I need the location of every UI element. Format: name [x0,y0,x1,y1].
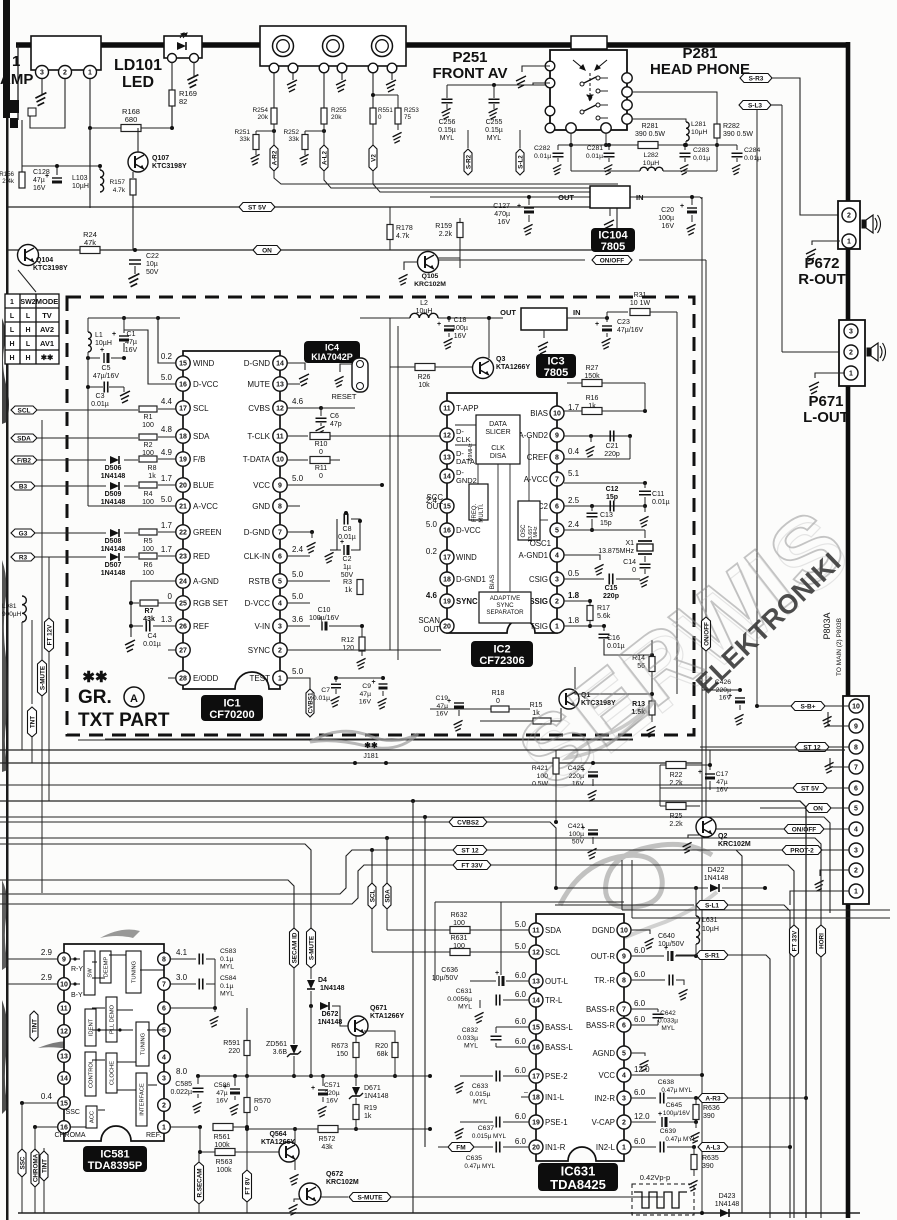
P251 pin 5 [368,63,378,73]
svg-text:C636: C636 [441,967,458,974]
svg-text:TUNING: TUNING [141,1032,147,1055]
svg-text:0: 0 [496,698,500,705]
svg-text:S-R2: S-R2 [465,154,472,169]
svg-text:Q672: Q672 [326,1171,343,1178]
diode D506 [110,456,119,464]
IC1 pin 26 REF [176,619,190,633]
svg-text:R635: R635 [702,1155,719,1162]
svg-text:KRC102M: KRC102M [326,1179,359,1186]
bottom border line [18,1212,860,1214]
transistor Q105 [418,252,439,273]
capacitor C637 [496,1117,500,1128]
svg-text:7: 7 [854,765,858,772]
flag A-L3 [698,1143,728,1152]
svg-text:15p: 15p [606,494,618,501]
svg-text:TV: TV [42,311,52,320]
bottom filter rail [571,170,640,172]
svg-text:C571: C571 [324,1082,340,1089]
IC581 block TUNING [136,1022,149,1066]
svg-text:0.01µ: 0.01µ [693,155,710,162]
P803A pin 7 [849,760,863,774]
svg-text:5.0: 5.0 [292,474,304,483]
IC1 pin 25 RGB SET [176,596,190,610]
svg-text:100: 100 [142,570,154,577]
svg-text:1N4148: 1N4148 [704,875,729,882]
flag HORI vertical [817,925,826,957]
bus wire y880 SECAM [0,880,294,928]
svg-text:IC3: IC3 [547,356,564,368]
svg-text:6.0: 6.0 [634,946,646,955]
svg-text:11: 11 [60,1006,68,1013]
svg-text:C585: C585 [175,1081,192,1088]
svg-text:WIND: WIND [193,359,215,368]
svg-text:12: 12 [276,406,284,413]
ground P251 pin6 [391,73,393,80]
svg-text:H: H [9,341,14,348]
svg-text:R3: R3 [343,579,352,586]
svg-text:C635: C635 [466,1155,482,1162]
IC1 pin 20 BLUE [176,478,190,492]
svg-text:PSE-2: PSE-2 [545,1072,568,1081]
wire SDA row [37,437,138,439]
capacitor C9 [381,676,385,680]
resistor R27 [582,380,602,387]
svg-text:C633: C633 [472,1083,488,1090]
IC2 pin 9 A-GND2 [550,428,564,442]
svg-text:1: 1 [622,1145,626,1152]
gray scribble swirl 2 [560,844,712,907]
svg-text:9: 9 [854,724,858,731]
svg-text:13: 13 [532,979,540,986]
svg-text:R20: R20 [375,1043,388,1050]
P803A pin 9 [849,719,863,733]
svg-text:MYL: MYL [440,135,455,142]
resistor R3b [359,570,361,576]
svg-text:SEPARATOR: SEPARATOR [486,609,524,616]
svg-text:R.SECAM: R.SECAM [196,1168,203,1197]
wire SCL row [37,409,138,411]
svg-text:C6: C6 [330,413,339,420]
svg-text:MODE: MODE [36,297,59,306]
resistor R1 [139,406,157,412]
IC581 pin 9 [58,953,71,966]
svg-text:43k: 43k [321,1144,333,1151]
capacitor C1 [119,335,129,337]
svg-text:0.5W: 0.5W [532,781,548,788]
IC581 pin 15 [58,1097,71,1110]
bus wire y817 [0,817,830,913]
IC1 pin 17 SCL [176,401,190,415]
svg-text:1N4148: 1N4148 [101,546,126,553]
svg-text:4: 4 [854,827,858,834]
IC631 pin 18 IN1-L [529,1090,543,1104]
svg-text:0.1µ: 0.1µ [220,983,233,990]
P803A pin 1 [849,884,863,898]
capacitor C571 [322,1076,324,1086]
svg-text:C10: C10 [318,607,331,614]
wire reset [340,364,352,372]
P803A pin 3 [849,843,863,857]
regulator IC3 box [521,308,567,330]
P251 pin 2 [288,63,298,73]
wire TSIG pin1 [564,625,604,627]
capacitor C584 [171,983,196,985]
capacitor C8 [344,511,348,515]
svg-text:3: 3 [854,848,858,855]
inductor L281 [686,122,689,141]
flag S-L1 [555,904,694,906]
resistor R24 [80,247,100,254]
connector P_amp pin 2 [59,66,72,79]
svg-text:0.015µ MYL: 0.015µ MYL [472,1133,507,1140]
IC1 pin 3 V-IN [273,619,287,633]
svg-text:C642: C642 [660,1010,676,1017]
svg-text:150k: 150k [584,373,600,380]
svg-text:OUT: OUT [424,625,441,634]
capacitor C14 [644,556,646,562]
IC2 CF72306 body [447,393,557,633]
svg-text:4.4: 4.4 [161,397,173,406]
svg-text:CSIG: CSIG [529,575,548,584]
svg-text:PSE-1: PSE-1 [545,1118,568,1127]
inductor L2 [410,313,438,318]
wire P251 jack2 down [323,73,325,108]
wire CVBS row pin12 [287,407,321,409]
diode D509 [110,482,119,490]
svg-text:100: 100 [453,920,465,927]
svg-text:Q564: Q564 [269,1131,286,1138]
svg-text:220µ: 220µ [324,1090,339,1097]
svg-text:TINT: TINT [41,1159,48,1173]
resistor R632 [450,927,470,934]
svg-text:10: 10 [852,704,860,711]
IC2 pin 4 A-GND1 [550,548,564,562]
svg-text:L: L [10,327,15,334]
svg-text:4.1: 4.1 [176,948,188,957]
svg-text:100: 100 [142,499,154,506]
svg-text:2.4: 2.4 [568,520,580,529]
wire IC1 pin15 WIND [158,318,176,363]
ground P671 pin1 [815,373,845,378]
svg-text:C15: C15 [605,585,618,592]
svg-text:D-VCC: D-VCC [456,526,481,535]
IC631 pin 3 IN2-R [617,1091,631,1105]
svg-text:AV2: AV2 [40,325,54,334]
svg-text:F/B: F/B [193,455,205,464]
LED LD101 box [164,36,202,58]
svg-text:4: 4 [555,553,559,560]
resistor R156 [19,172,25,188]
svg-text:H: H [25,327,30,334]
svg-text:6.0: 6.0 [515,971,527,980]
IC631 pin 15 BASS-L [529,1020,543,1034]
svg-text:E/ODD: E/ODD [193,674,219,683]
zener ZD561 [293,964,295,1044]
svg-text:R156: R156 [0,171,15,178]
IC581 pin 5 [158,1024,171,1037]
connector P_amp pin 3 [36,66,49,79]
transistor Q671 [348,1016,368,1036]
svg-text:18: 18 [443,577,451,584]
resistor R421 [555,750,557,758]
svg-text:47k: 47k [84,238,96,247]
svg-text:4: 4 [622,1073,626,1080]
svg-text:220p: 220p [604,451,620,458]
svg-text:5.0: 5.0 [161,373,173,382]
svg-text:C281: C281 [587,145,603,152]
resistor R13 [649,701,655,715]
svg-text:DEEMP: DEEMP [104,957,110,978]
ground under P_amp pin 3 [41,79,43,95]
svg-text:OUT-R: OUT-R [591,952,616,961]
svg-text:47µ: 47µ [716,779,728,786]
IC2 pin 3 CSIG [550,572,564,586]
resistor R8 [139,456,157,462]
IC2 pin 16 D-VCC [440,523,454,537]
connector P251 FRONT AV box [260,26,406,66]
IC631 pin 5 AGND [617,1046,631,1060]
svg-text:MULTI.: MULTI. [479,503,485,523]
svg-text:16: 16 [443,528,451,535]
svg-text:390: 390 [703,1113,715,1120]
wire ON/OFF down right [705,260,707,829]
svg-text:4: 4 [278,601,282,608]
svg-text:10µH: 10µH [691,129,707,136]
svg-text:1: 1 [555,624,559,631]
IC581 TDA8395P body [64,944,164,1141]
ground A-GND1 pin4 [564,555,600,560]
svg-text:SYNC: SYNC [496,602,514,609]
svg-text:C638: C638 [658,1079,674,1086]
svg-text:5: 5 [854,806,858,813]
svg-text:DATA: DATA [489,421,507,428]
capacitor C426 [738,688,742,692]
svg-text:C421: C421 [568,823,584,830]
capacitor C17 [709,750,711,770]
IC631 pin 11 SDA [529,923,543,937]
svg-text:OUT: OUT [427,502,444,511]
resistor R255 [321,108,327,124]
IC1 pin 18 SDA [176,429,190,443]
svg-text:R561: R561 [214,1134,231,1141]
wire R157 to ON row [132,195,134,250]
IC1 pin 11 T-CLK [273,429,287,443]
svg-text:1.7: 1.7 [161,521,173,530]
resistor R591 [246,1008,248,1040]
svg-text:FT 33V: FT 33V [791,930,798,951]
svg-text:17: 17 [532,1074,540,1081]
diode D672 [320,1002,329,1010]
svg-text:H: H [9,355,14,362]
P281 switch contacts [580,82,584,86]
flag A-L2 [323,124,325,146]
svg-text:15: 15 [532,1025,540,1032]
wire C583/C584 gnd rail [214,959,216,1008]
IC2 pin 10 BIAS [550,406,564,420]
svg-text:REF.: REF. [146,1132,161,1139]
flag TINT mid [33,984,35,1010]
svg-text:TO MAIN (2) P803B: TO MAIN (2) P803B [836,618,843,676]
svg-text:J181: J181 [363,753,378,760]
svg-text:D-GND: D-GND [244,528,270,537]
svg-text:6: 6 [555,504,559,511]
svg-text:R26: R26 [418,374,431,381]
flag FT 33V vertical [790,925,799,957]
svg-text:0.2: 0.2 [161,352,173,361]
svg-text:KRC102M: KRC102M [414,281,446,288]
svg-text:C426: C426 [715,679,731,686]
IC1 pin 23 RED [176,549,190,563]
flag CVBS2 [0,822,556,888]
svg-text:20: 20 [532,1145,540,1152]
IC631 TDA8425 body [536,914,624,1161]
svg-text:IC581: IC581 [100,1149,129,1161]
resistor R15 [533,718,551,724]
svg-text:14: 14 [443,474,451,481]
svg-text:12: 12 [60,1029,68,1036]
ground P672 pin1 [812,241,840,245]
capacitor C128 [52,177,62,179]
IC581 pin 3 [158,1072,171,1085]
svg-text:10: 10 [620,928,628,935]
svg-text:TR-L: TR-L [545,996,563,1005]
svg-text:5.0: 5.0 [515,920,527,929]
svg-text:470µ: 470µ [494,211,510,218]
wire R252 branch [305,130,324,132]
svg-text:R10: R10 [315,441,328,448]
svg-text:1k: 1k [148,473,156,480]
svg-text:+: + [340,539,344,546]
wire L2 row [360,317,410,319]
ground P251 pin4 [341,73,343,80]
wire node R168 down to Q107 [89,128,91,208]
capacitor C638 [631,1097,656,1099]
svg-text:1k: 1k [345,587,353,594]
svg-text:R2: R2 [144,442,153,449]
svg-text:R27: R27 [586,365,599,372]
scan blotch left 2 [2,560,8,772]
svg-text:5.0: 5.0 [292,570,304,579]
IC631 pin 7 BASS-R [617,1002,631,1016]
capacitor C21 [610,431,614,442]
svg-text:KTA1266Y: KTA1266Y [496,364,530,371]
svg-text:100: 100 [142,422,154,429]
svg-text:6.0: 6.0 [515,1137,527,1146]
connector P672 box [838,201,860,249]
flag V2 [372,124,374,146]
wire pin27 stub [168,649,176,651]
zener D671 [355,1076,357,1086]
svg-text:0.01µ: 0.01µ [652,499,670,506]
wire pin6 CLK-IN [287,555,310,557]
IC581 pin 2 [158,1099,171,1112]
wire ST5V corner down [616,207,618,248]
wire IC1 pin16 DVCC [124,330,176,384]
resistor R11 row pin10 T-DATA [287,459,308,461]
capacitor C10 [287,625,310,627]
svg-text:TEST: TEST [250,674,271,683]
IC2 data slicer block [476,415,520,464]
svg-text:16: 16 [532,1045,540,1052]
resistor R178 [387,225,393,240]
svg-text:5.0: 5.0 [292,592,304,601]
svg-text:C645: C645 [666,1102,682,1109]
svg-text:R551: R551 [378,107,393,114]
flag ON/OFF at pin4 [706,828,849,830]
svg-text:BASS-R: BASS-R [586,1021,615,1030]
svg-text:16V: 16V [436,711,449,718]
wire regulator IN right [700,197,702,199]
wire pin7 DGND [287,531,312,533]
scan smudge mid-left [38,1039,102,1050]
resistor R19 [355,1098,357,1104]
svg-text:7: 7 [278,530,282,537]
svg-text:+: + [371,679,375,686]
svg-text:1N4148: 1N4148 [318,1019,343,1026]
svg-text:R563: R563 [216,1159,233,1166]
IC2 osc block [518,501,540,540]
wire pin4 DVCC [287,602,310,604]
dashed TXT-part box [67,297,694,735]
left rails bottom [21,1103,23,1213]
capacitor C640 [631,955,664,957]
svg-text:24: 24 [179,579,187,586]
svg-text:SCL: SCL [369,890,376,903]
IC581 pin 6 [158,1002,171,1015]
IC1 pin 12 CVBS [273,401,287,415]
svg-text:R7: R7 [145,608,154,615]
IC2 pin 1 TSIG [550,619,564,633]
wire IC581 pin15 left [22,1102,58,1104]
svg-text:C583: C583 [220,948,236,955]
thick top bus wire [16,42,848,48]
svg-text:R157: R157 [109,179,125,186]
svg-text:DGND: DGND [592,926,615,935]
svg-text:CLOCHE: CLOCHE [110,1061,116,1085]
resistor R10 row pin11 T-CLK [287,435,308,437]
svg-text:6.0: 6.0 [515,990,527,999]
wire P281 pin4 to L281 [633,119,686,122]
IC2 pin 17 WIND [440,550,454,564]
svg-text:D672: D672 [322,1011,339,1018]
svg-text:AGND: AGND [592,1049,615,1058]
transistor Q2 [696,817,716,837]
svg-text:6.0: 6.0 [515,1017,527,1026]
scan blotch left 4 [2,1000,8,1114]
IC1 pin 21 A-VCC [176,499,190,513]
svg-text:6.0: 6.0 [634,970,646,979]
svg-text:L: L [26,313,31,320]
svg-text:100µ/16V: 100µ/16V [309,615,339,622]
flag ST 5V at pin6 [660,787,849,789]
resistor R31 [607,311,628,313]
svg-text:V-CAP: V-CAP [592,1118,615,1127]
wire SDA vertical [385,836,389,840]
svg-text:P803A: P803A [822,612,832,639]
svg-text:680: 680 [125,115,138,124]
svg-text:R281: R281 [642,123,659,130]
inductor L282 [640,167,663,171]
IC631 label box [538,1163,618,1191]
svg-text:6.0: 6.0 [515,1066,527,1075]
transistor Q1 [559,689,579,709]
svg-text:B-Y: B-Y [71,992,83,999]
svg-text:V-IN: V-IN [254,622,270,631]
bus wire y1076 [198,1075,430,1077]
svg-text:16: 16 [179,382,187,389]
svg-text:4.9: 4.9 [161,448,173,457]
svg-text:2: 2 [854,868,858,875]
